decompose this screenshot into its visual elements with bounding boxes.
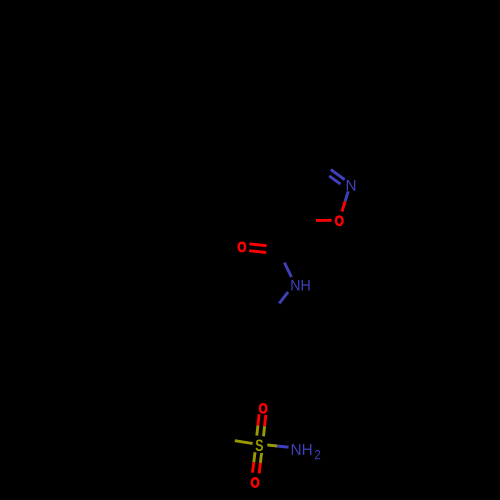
isoxazole C3=N double bond, main line blue half (331, 170, 345, 180)
sulfonyl lower O label (251, 477, 259, 487)
N-CH2 bond blue half (279, 292, 288, 303)
isoxazole N label (347, 180, 356, 191)
isoxazole N-O bond blue half (345, 191, 348, 201)
amide C-N bond blue half (284, 263, 291, 277)
sulfonamide NH2 subscript 2 (315, 450, 320, 459)
sulfonamide NH2 label (292, 444, 312, 455)
upper S=O right line olive half (264, 426, 265, 436)
lower S=O right line red half (259, 463, 260, 474)
sulfonyl upper O label (259, 403, 267, 413)
isoxazole N-O bond red half (342, 201, 345, 211)
upper S=O left line olive half (257, 425, 258, 435)
lower S=O left line red half (253, 462, 254, 472)
S-NH2 bond olive half (267, 445, 277, 446)
lower S=O right line olive half (260, 453, 261, 463)
S-C(aryl) bond olive half (235, 441, 253, 444)
amide C=O double bond upper line red half (250, 244, 267, 246)
upper S=O right line red half (265, 415, 266, 426)
amide NH label (291, 280, 309, 291)
isoxazole O label (335, 216, 343, 226)
amide C=O double bond lower line red half (249, 251, 266, 253)
isoxazole O-C5 bond red half (316, 219, 332, 222)
lower S=O left line olive half (254, 452, 255, 462)
isoxazole C3=N double bond, inner line blue half (329, 176, 340, 184)
sulfonyl S label (256, 439, 264, 451)
S-NH2 bond blue half (277, 446, 288, 447)
upper S=O left line red half (258, 414, 259, 425)
carbonyl O label (238, 242, 246, 252)
